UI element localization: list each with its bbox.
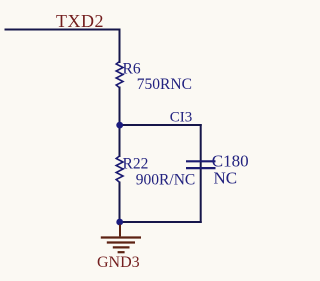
svg-text:CI3: CI3 bbox=[170, 110, 193, 126]
svg-text:900R/NC: 900R/NC bbox=[136, 172, 195, 189]
svg-text:TXD2: TXD2 bbox=[56, 11, 104, 31]
svg-text:R22: R22 bbox=[123, 156, 149, 173]
svg-text:GND3: GND3 bbox=[97, 254, 140, 271]
svg-text:750RNC: 750RNC bbox=[137, 76, 192, 93]
svg-text:NC: NC bbox=[214, 169, 238, 188]
